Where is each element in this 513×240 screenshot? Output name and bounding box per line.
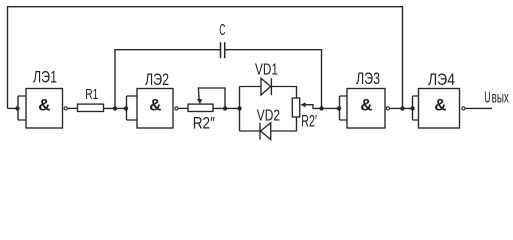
node inner loop right junction — [319, 106, 323, 110]
wire VD2 branch right to R2' bottom — [271, 117, 297, 131]
capacitor C — [221, 42, 225, 58]
svg-text:R1: R1 — [85, 86, 98, 103]
wire LE1 output to R1 — [68, 107, 78, 109]
svg-text:ЛЭ2: ЛЭ2 — [145, 71, 169, 89]
wire outer feedback loop — [8, 7, 403, 109]
svg-text:вых: вых — [492, 90, 509, 107]
wire R2'' wiper arm — [198, 88, 225, 108]
svg-text:&: & — [360, 96, 372, 115]
wire LE1 input bracket — [18, 96, 26, 120]
diode VD1 — [261, 78, 271, 95]
wire LE4 input bracket — [413, 96, 419, 120]
wire LE3 output to LE4 — [390, 107, 413, 109]
gate LE3 inversion bubble — [386, 107, 389, 110]
node outer loop junction — [400, 106, 404, 110]
arrowhead R2' wiper — [300, 102, 305, 107]
logic gate LE1 box — [26, 89, 63, 129]
gate LE4 inversion bubble — [462, 107, 465, 110]
svg-text:ЛЭ1: ЛЭ1 — [33, 69, 57, 87]
wire VD1 branch left — [240, 86, 262, 88]
wire LE2 output to R2'' — [178, 107, 188, 109]
wire VD1 branch right to R2' top — [271, 87, 296, 99]
wire diode bridge left rail — [239, 87, 241, 132]
wire R1 to LE2 input — [104, 107, 127, 109]
wire feedback to LE1 input — [8, 107, 19, 109]
logic gate LE4 box — [419, 89, 460, 129]
wire VD2 branch left — [240, 130, 261, 132]
node R2'' wiper junction — [223, 106, 227, 110]
svg-text:VD2: VD2 — [257, 108, 280, 125]
svg-text:&: & — [38, 96, 50, 115]
svg-text:VD1: VD1 — [255, 62, 278, 79]
resistor R2' (vertical) — [292, 98, 299, 117]
wire R2'' to diode bridge — [213, 107, 240, 109]
svg-text:ЛЭ4: ЛЭ4 — [428, 71, 455, 89]
wire LE3 input bracket — [340, 96, 348, 120]
logic gate LE3 box — [347, 89, 385, 129]
arrowhead R2'' wiper — [197, 99, 203, 104]
wire inner feedback loop left — [115, 50, 221, 109]
resistor R1 — [78, 104, 104, 111]
svg-text:ЛЭ3: ЛЭ3 — [356, 70, 380, 88]
node LE2 input junction — [124, 106, 128, 110]
node LE4 input junction — [410, 106, 414, 110]
gate LE2 inversion bubble — [175, 107, 178, 110]
node inner loop left junction — [113, 106, 117, 110]
wire to LE3 input — [322, 107, 340, 109]
node LE1 input junction — [15, 106, 19, 110]
wire inner feedback loop right — [225, 50, 322, 109]
wire R2' wiper arm — [305, 105, 322, 109]
svg-text:R2″: R2″ — [193, 114, 215, 133]
gate LE1 inversion bubble — [64, 107, 67, 110]
svg-text:&: & — [434, 96, 446, 115]
svg-text:U: U — [484, 90, 490, 107]
node LE3 input junction — [337, 106, 341, 110]
logic gate LE2 box — [137, 89, 173, 129]
svg-text:C: C — [219, 22, 225, 39]
wire LE2 input bracket — [127, 96, 138, 120]
svg-text:R2′: R2′ — [301, 112, 317, 131]
diode VD2 — [261, 123, 271, 140]
wire output Uvyh — [465, 107, 492, 109]
svg-text:&: & — [149, 96, 161, 115]
node diode bridge left rail junction — [237, 106, 241, 110]
resistor R2'' (trimmer) — [188, 104, 213, 111]
